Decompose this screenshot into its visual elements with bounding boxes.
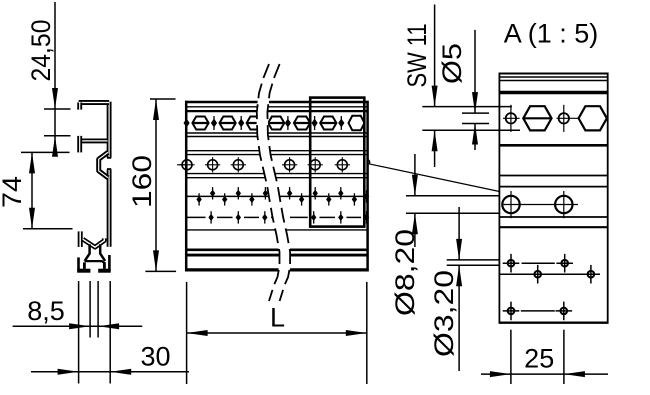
svg-text:8,5: 8,5 (27, 296, 65, 326)
svg-text:L: L (270, 303, 285, 333)
svg-text:160: 160 (127, 155, 157, 208)
svg-text:74: 74 (0, 176, 27, 208)
svg-text:Ø5: Ø5 (437, 43, 467, 84)
svg-text:24,50: 24,50 (26, 19, 56, 81)
svg-text:25: 25 (524, 344, 554, 374)
svg-text:Ø8,20: Ø8,20 (390, 229, 420, 316)
svg-text:SW 11: SW 11 (402, 24, 432, 88)
svg-text:30: 30 (140, 342, 170, 372)
svg-text:A (1 : 5): A (1 : 5) (504, 19, 599, 49)
svg-text:Ø3,20: Ø3,20 (429, 270, 459, 357)
